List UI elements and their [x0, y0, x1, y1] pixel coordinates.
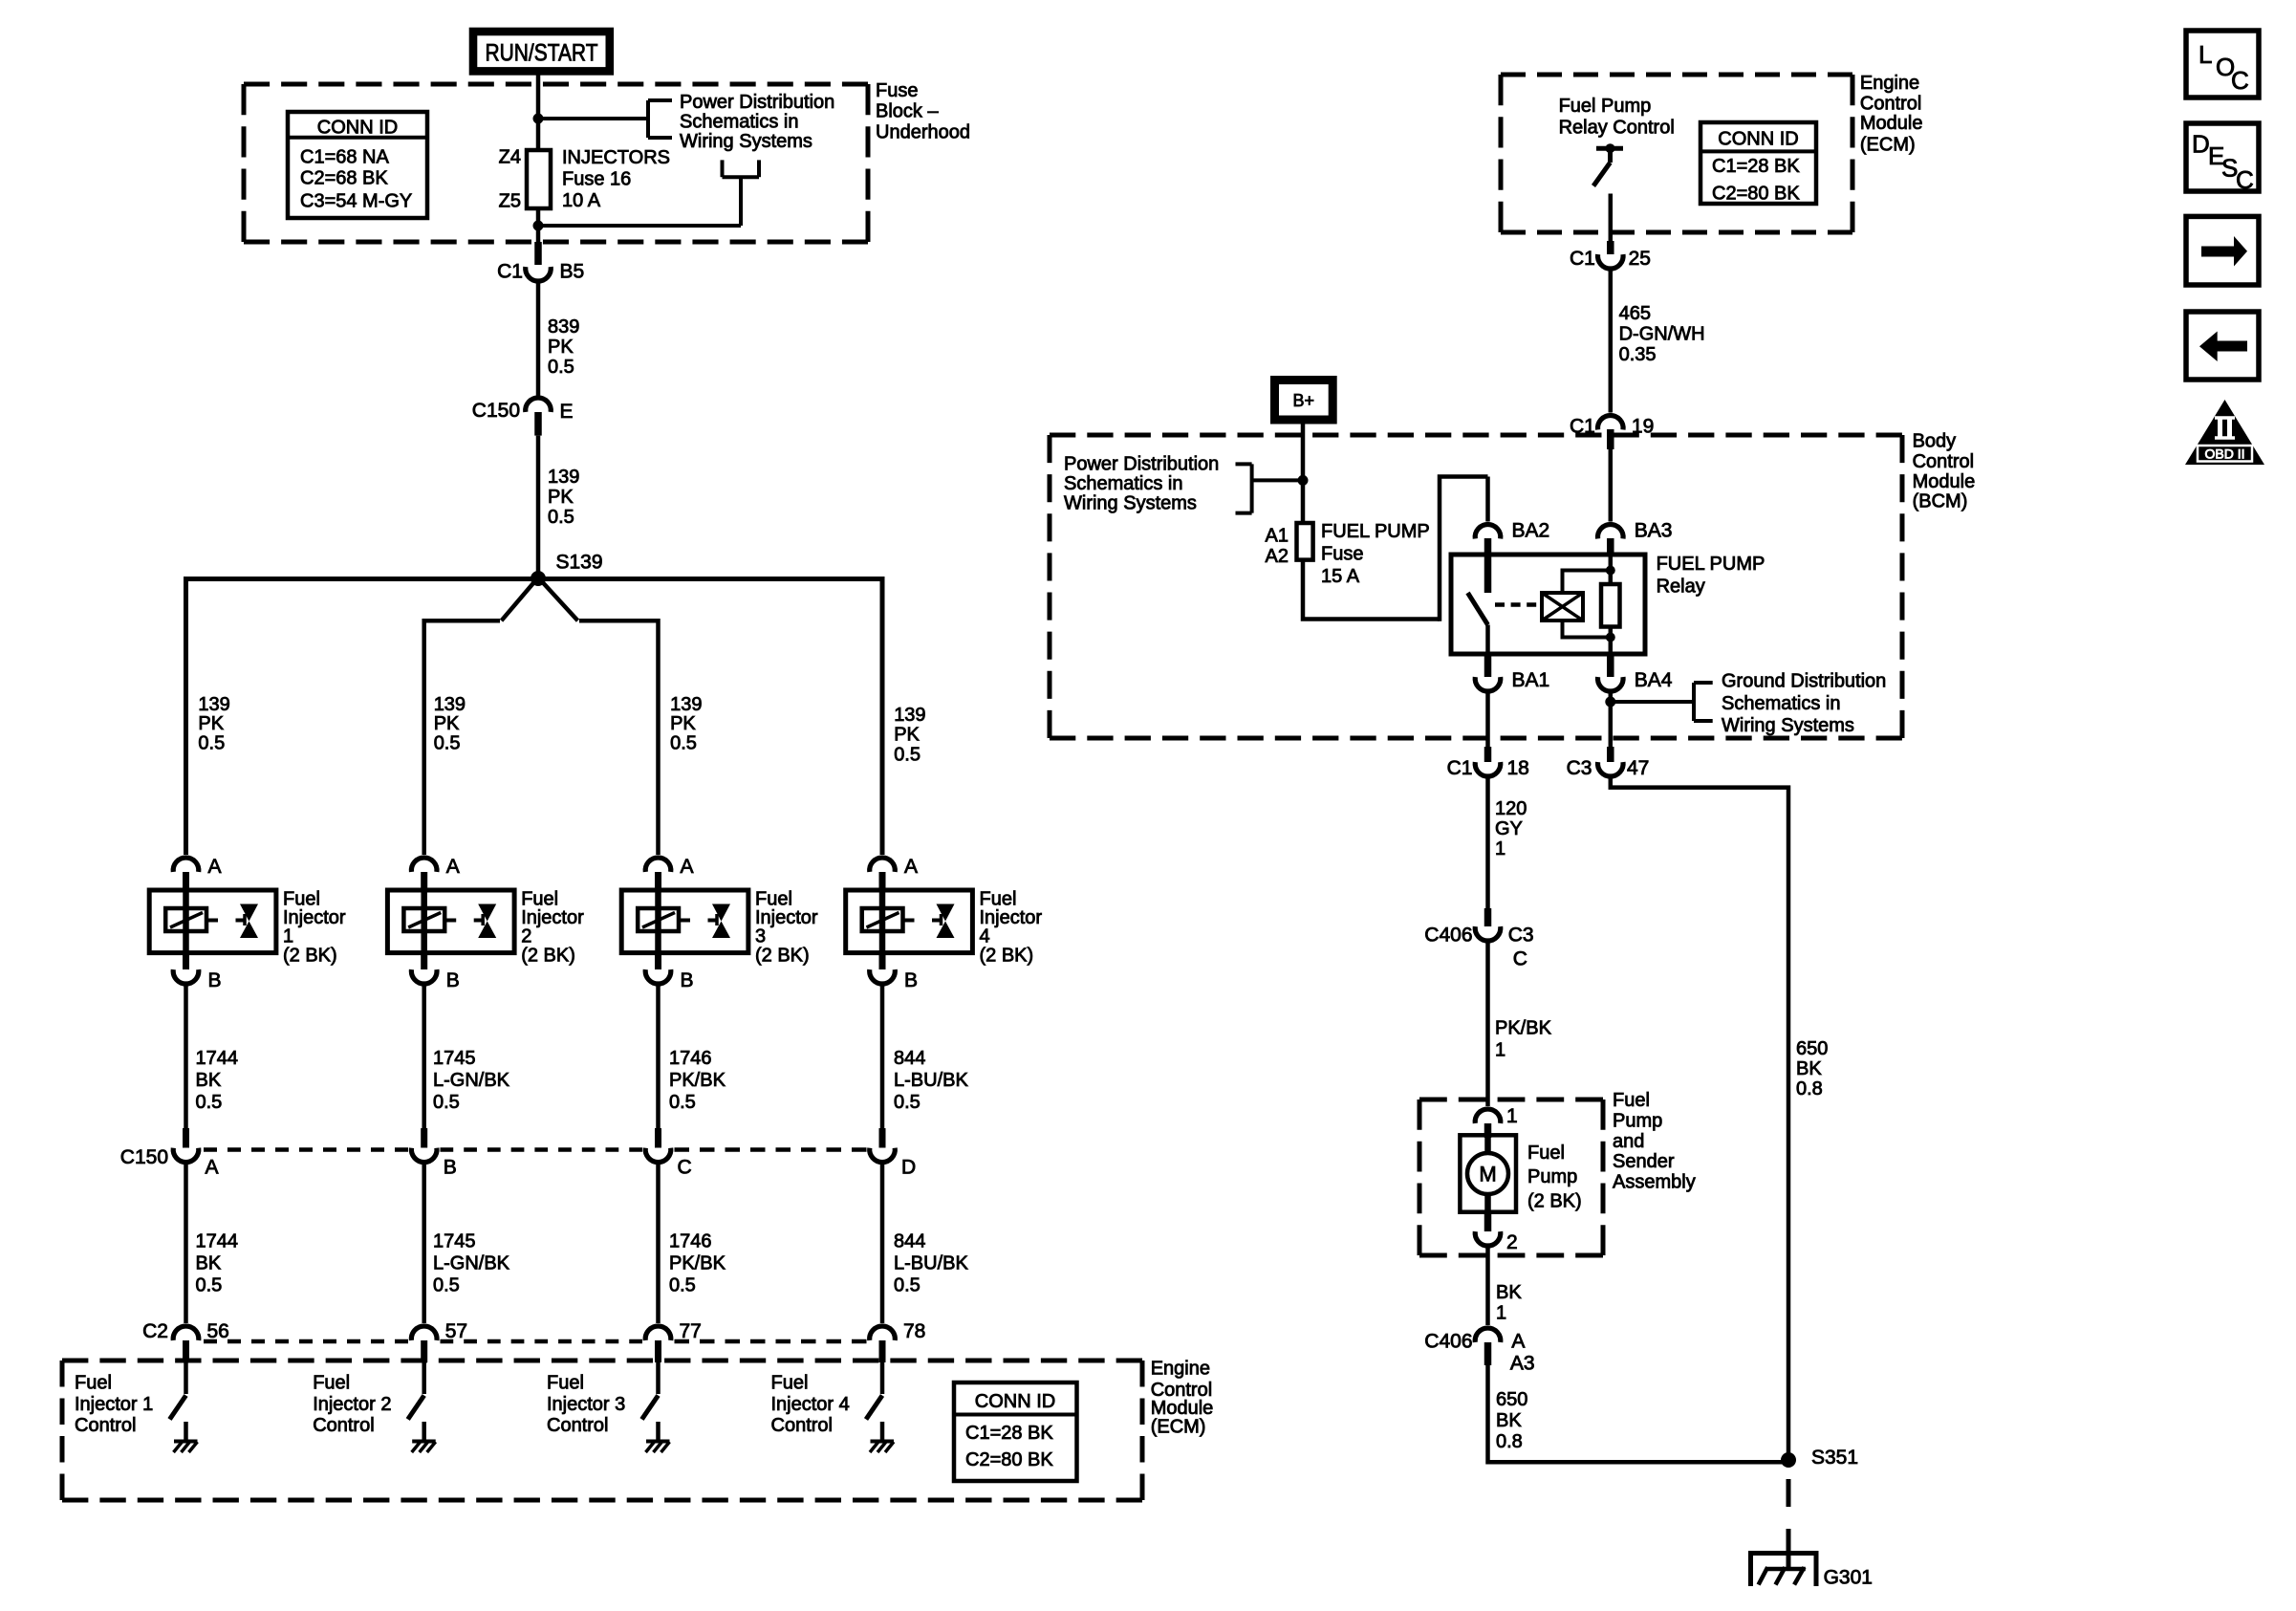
svg-text:GY: GY: [1495, 818, 1523, 839]
svg-text:Engine: Engine: [1151, 1358, 1210, 1379]
svg-text:C1=28 BK: C1=28 BK: [1712, 156, 1800, 177]
svg-text:0.5: 0.5: [548, 357, 574, 378]
svg-text:A: A: [681, 856, 694, 878]
svg-text:BK: BK: [196, 1070, 222, 1091]
svg-text:RUN/START: RUN/START: [486, 40, 598, 67]
svg-text:18: 18: [1507, 757, 1529, 779]
svg-text:0.5: 0.5: [670, 733, 697, 754]
svg-text:(BCM): (BCM): [1913, 490, 1968, 512]
svg-text:A3: A3: [1510, 1352, 1535, 1374]
svg-text:1744: 1744: [196, 1230, 239, 1252]
svg-text:Fuel: Fuel: [1613, 1090, 1650, 1111]
svg-text:L-BU/BK: L-BU/BK: [894, 1252, 968, 1274]
svg-text:B: B: [208, 969, 222, 991]
svg-text:G301: G301: [1824, 1567, 1873, 1589]
svg-text:(ECM): (ECM): [1151, 1417, 1206, 1438]
svg-text:B: B: [681, 969, 694, 991]
svg-text:Underhood: Underhood: [876, 121, 970, 142]
svg-text:A: A: [904, 856, 918, 878]
svg-text:2: 2: [1506, 1231, 1518, 1253]
svg-text:B: B: [446, 969, 460, 991]
svg-text:C1=68 NA: C1=68 NA: [300, 147, 389, 168]
svg-text:FUEL PUMP: FUEL PUMP: [1657, 554, 1765, 575]
svg-text:(2 BK): (2 BK): [755, 945, 810, 966]
svg-text:1: 1: [1495, 1040, 1505, 1061]
svg-text:Schematics in: Schematics in: [1722, 693, 1841, 714]
svg-text:B: B: [904, 969, 918, 991]
svg-text:844: 844: [894, 1048, 925, 1069]
svg-text:A: A: [446, 856, 460, 878]
svg-text:650: 650: [1496, 1389, 1527, 1410]
svg-text:C3: C3: [1567, 757, 1592, 779]
svg-text:FUEL PUMP: FUEL PUMP: [1321, 521, 1430, 542]
svg-text:PK: PK: [548, 487, 574, 508]
svg-text:Control: Control: [1913, 451, 1974, 472]
svg-text:A: A: [208, 856, 222, 878]
svg-text:C: C: [2231, 66, 2249, 95]
svg-text:(2 BK): (2 BK): [521, 945, 575, 966]
svg-text:PK: PK: [894, 725, 920, 746]
svg-text:1: 1: [1495, 838, 1505, 860]
svg-text:S351: S351: [1811, 1447, 1858, 1469]
svg-text:PK/BK: PK/BK: [669, 1252, 726, 1274]
svg-text:C2: C2: [142, 1320, 168, 1342]
svg-text:B5: B5: [560, 260, 585, 282]
svg-text:L: L: [2199, 40, 2212, 69]
svg-text:Control: Control: [75, 1415, 136, 1436]
svg-text:PK: PK: [434, 713, 460, 734]
svg-text:1746: 1746: [669, 1230, 712, 1252]
svg-text:Module: Module: [1860, 113, 1923, 134]
svg-text:C1: C1: [497, 260, 523, 282]
svg-text:1744: 1744: [196, 1048, 239, 1069]
svg-text:1: 1: [1506, 1105, 1518, 1127]
svg-text:D: D: [901, 1156, 916, 1178]
svg-text:Fuse: Fuse: [876, 80, 918, 101]
svg-text:Fuse: Fuse: [1321, 544, 1363, 565]
svg-text:Schematics in: Schematics in: [680, 112, 799, 133]
svg-text:Wiring Systems: Wiring Systems: [1064, 493, 1197, 514]
svg-text:Control: Control: [1860, 93, 1921, 114]
svg-text:Body: Body: [1913, 430, 1957, 451]
svg-text:25: 25: [1629, 248, 1651, 270]
svg-text:47: 47: [1627, 757, 1649, 779]
svg-text:(2 BK): (2 BK): [980, 945, 1034, 966]
svg-text:1: 1: [1496, 1302, 1506, 1323]
svg-text:D-GN/WH: D-GN/WH: [1619, 323, 1705, 344]
svg-text:OBD II: OBD II: [2204, 446, 2244, 462]
svg-text:0.5: 0.5: [433, 1274, 460, 1295]
svg-text:PK: PK: [548, 337, 574, 358]
svg-text:Pump: Pump: [1527, 1166, 1577, 1187]
svg-text:Assembly: Assembly: [1613, 1172, 1696, 1193]
svg-text:120: 120: [1495, 798, 1527, 819]
svg-text:and: and: [1613, 1131, 1644, 1152]
svg-text:0.5: 0.5: [198, 733, 225, 754]
svg-text:78: 78: [903, 1320, 925, 1342]
svg-text:0.5: 0.5: [433, 1092, 460, 1113]
svg-text:(2 BK): (2 BK): [1527, 1191, 1582, 1212]
svg-text:Fuel: Fuel: [75, 1373, 112, 1394]
svg-text:PK/BK: PK/BK: [669, 1070, 726, 1091]
svg-text:Relay Control: Relay Control: [1559, 117, 1675, 138]
svg-text:0.5: 0.5: [669, 1274, 696, 1295]
svg-text:BA1: BA1: [1512, 669, 1550, 691]
svg-text:Fuel: Fuel: [1527, 1143, 1565, 1164]
svg-text:Power Distribution: Power Distribution: [1064, 454, 1219, 475]
svg-text:PK: PK: [198, 713, 224, 734]
svg-text:BK: BK: [1496, 1282, 1522, 1303]
svg-text:C: C: [1513, 948, 1527, 970]
svg-text:139: 139: [894, 705, 925, 726]
svg-text:0.8: 0.8: [1796, 1078, 1823, 1099]
svg-text:C150: C150: [472, 400, 520, 422]
svg-text:C: C: [678, 1156, 692, 1178]
svg-text:Pump: Pump: [1613, 1110, 1662, 1131]
svg-text:0.8: 0.8: [1496, 1431, 1523, 1452]
svg-text:Relay: Relay: [1657, 576, 1705, 597]
svg-text:1746: 1746: [669, 1048, 712, 1069]
svg-text:0.5: 0.5: [196, 1274, 223, 1295]
svg-text:C2=80 BK: C2=80 BK: [1712, 183, 1800, 204]
svg-text:C2=68 BK: C2=68 BK: [300, 168, 388, 189]
svg-text:C3: C3: [1508, 924, 1534, 946]
svg-text:1745: 1745: [433, 1048, 476, 1069]
svg-text:77: 77: [680, 1320, 702, 1342]
svg-text:0.5: 0.5: [894, 745, 921, 766]
svg-text:B+: B+: [1293, 391, 1315, 410]
svg-text:S139: S139: [556, 552, 603, 574]
svg-text:139: 139: [198, 694, 229, 715]
svg-text:0.5: 0.5: [434, 733, 461, 754]
svg-text:Block –: Block –: [876, 101, 939, 122]
svg-text:L-GN/BK: L-GN/BK: [433, 1070, 510, 1091]
svg-text:L-GN/BK: L-GN/BK: [433, 1252, 510, 1274]
svg-text:C3=54 M-GY: C3=54 M-GY: [300, 190, 412, 211]
svg-text:BK: BK: [1496, 1410, 1522, 1431]
svg-text:C1: C1: [1570, 248, 1595, 270]
svg-text:844: 844: [894, 1230, 925, 1252]
svg-text:Sender: Sender: [1613, 1151, 1675, 1172]
svg-text:BA2: BA2: [1512, 520, 1550, 542]
svg-text:839: 839: [548, 316, 579, 337]
svg-text:Ground Distribution: Ground Distribution: [1722, 670, 1886, 691]
svg-text:Power Distribution: Power Distribution: [680, 92, 834, 113]
svg-text:Injector 4: Injector 4: [771, 1394, 850, 1415]
svg-text:CONN ID: CONN ID: [317, 117, 398, 138]
svg-text:M: M: [1479, 1163, 1496, 1186]
svg-text:Fuel: Fuel: [313, 1373, 350, 1394]
svg-text:57: 57: [445, 1320, 467, 1342]
svg-text:Control: Control: [547, 1415, 608, 1436]
svg-text:(ECM): (ECM): [1860, 134, 1916, 155]
svg-text:139: 139: [548, 467, 579, 488]
svg-text:Module: Module: [1913, 471, 1976, 492]
svg-text:CONN ID: CONN ID: [1718, 128, 1798, 149]
svg-text:B: B: [444, 1156, 457, 1178]
svg-text:C2=80 BK: C2=80 BK: [965, 1449, 1053, 1470]
svg-text:10 A: 10 A: [562, 190, 601, 211]
svg-text:BK: BK: [1796, 1058, 1822, 1079]
svg-text:Control: Control: [313, 1415, 374, 1436]
svg-text:465: 465: [1619, 303, 1651, 324]
svg-text:INJECTORS: INJECTORS: [562, 147, 670, 168]
svg-text:(2 BK): (2 BK): [283, 945, 337, 966]
svg-text:Fuel Pump: Fuel Pump: [1559, 96, 1652, 117]
svg-text:C1: C1: [1447, 757, 1473, 779]
svg-text:A1: A1: [1266, 526, 1289, 547]
svg-text:BA4: BA4: [1635, 669, 1673, 691]
svg-text:139: 139: [670, 694, 702, 715]
svg-text:C406: C406: [1424, 1331, 1472, 1353]
svg-text:CONN ID: CONN ID: [975, 1391, 1055, 1412]
svg-text:Module: Module: [1151, 1398, 1214, 1419]
svg-text:Fuel: Fuel: [547, 1373, 584, 1394]
svg-text:Fuse 16: Fuse 16: [562, 168, 631, 189]
svg-text:Fuel: Fuel: [771, 1373, 809, 1394]
svg-text:E: E: [560, 401, 574, 423]
svg-text:650: 650: [1796, 1038, 1828, 1059]
svg-text:1745: 1745: [433, 1230, 476, 1252]
svg-text:PK: PK: [670, 713, 696, 734]
svg-text:0.35: 0.35: [1619, 344, 1657, 365]
svg-text:A: A: [206, 1156, 219, 1178]
svg-text:Injector 3: Injector 3: [547, 1394, 625, 1415]
svg-text:C406: C406: [1424, 924, 1472, 946]
svg-text:C150: C150: [120, 1146, 168, 1168]
svg-text:Wiring Systems: Wiring Systems: [680, 131, 812, 152]
svg-text:0.5: 0.5: [894, 1092, 921, 1113]
svg-text:Wiring Systems: Wiring Systems: [1722, 715, 1854, 736]
svg-text:0.5: 0.5: [196, 1092, 223, 1113]
svg-text:0.5: 0.5: [669, 1092, 696, 1113]
svg-text:PK/BK: PK/BK: [1495, 1018, 1552, 1039]
svg-text:Injector 2: Injector 2: [313, 1394, 391, 1415]
svg-text:0.5: 0.5: [548, 507, 574, 528]
svg-text:A2: A2: [1266, 546, 1289, 567]
svg-text:Engine: Engine: [1860, 73, 1919, 94]
svg-text:C: C: [2236, 165, 2254, 194]
svg-text:L-BU/BK: L-BU/BK: [894, 1070, 968, 1091]
svg-text:D: D: [2192, 130, 2210, 159]
svg-text:Z4: Z4: [499, 147, 521, 168]
svg-text:56: 56: [207, 1320, 229, 1342]
svg-text:Schematics in: Schematics in: [1064, 473, 1183, 494]
svg-text:A: A: [1511, 1331, 1525, 1353]
svg-text:0.5: 0.5: [894, 1274, 921, 1295]
svg-text:BA3: BA3: [1635, 520, 1673, 542]
svg-text:Z5: Z5: [499, 190, 521, 211]
svg-text:C1=28 BK: C1=28 BK: [965, 1423, 1053, 1444]
svg-text:15 A: 15 A: [1321, 566, 1360, 587]
svg-text:BK: BK: [196, 1252, 222, 1274]
svg-text:139: 139: [434, 694, 466, 715]
svg-text:Injector 1: Injector 1: [75, 1394, 153, 1415]
svg-text:Control: Control: [771, 1415, 833, 1436]
